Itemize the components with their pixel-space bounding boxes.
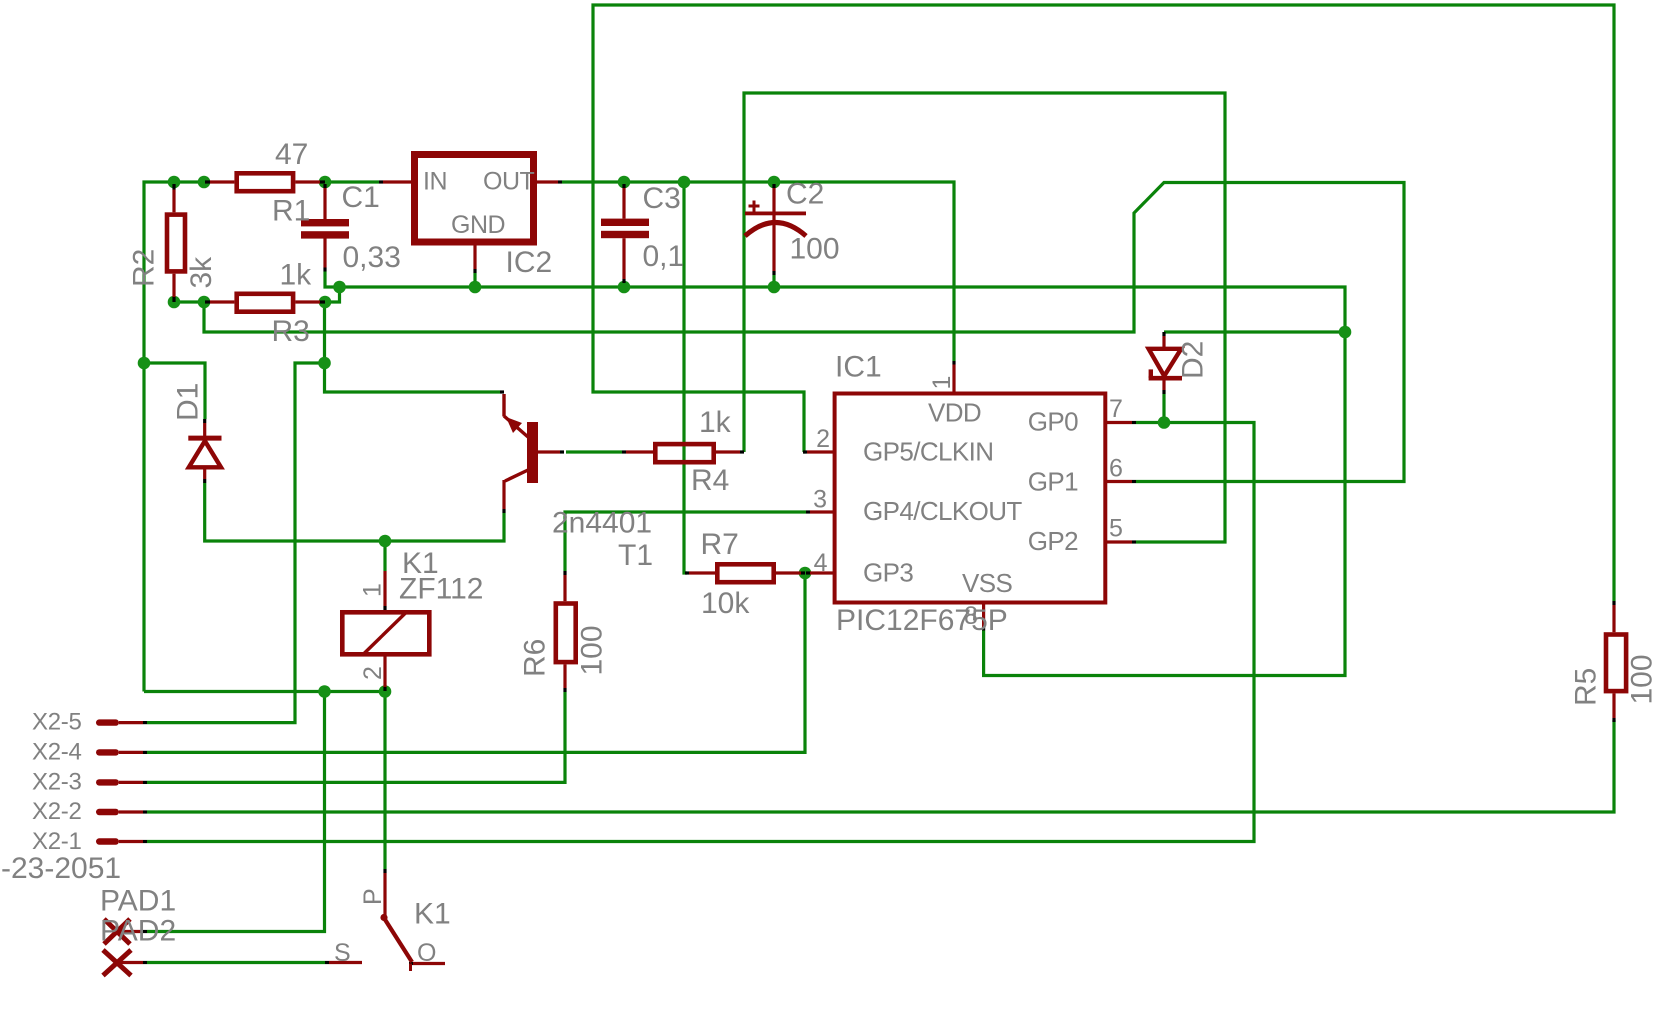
svg-text:100: 100	[576, 625, 609, 675]
wire R2 bottom to R3 left	[174, 300, 204, 303]
svg-text:0,33: 0,33	[343, 241, 401, 274]
connector X2-4 pin line	[119, 751, 143, 754]
resistor R5 pin top	[1612, 605, 1615, 632]
diode D2 cathode bar	[1149, 376, 1182, 381]
connector X2-2 pin stub	[96, 809, 119, 815]
svg-text:X2-1: X2-1	[32, 828, 82, 855]
node junction GND rail start	[333, 281, 346, 294]
svg-text:S: S	[334, 939, 350, 967]
connector X2-1 pin line	[119, 840, 143, 843]
connector X2-4 pin stub	[96, 749, 119, 755]
capacitor C2 curved plate	[745, 223, 806, 237]
svg-text:C1: C1	[342, 181, 380, 214]
wire R3 right jog to GND rail	[325, 288, 340, 303]
resistor R2 pin top	[172, 190, 175, 213]
node junction PAD1 riser	[318, 685, 331, 698]
svg-text:R5: R5	[1570, 668, 1603, 706]
diode D2 triangle	[1149, 349, 1182, 376]
capacitor C2 straight plate	[745, 212, 806, 216]
svg-text:4: 4	[814, 549, 828, 577]
wire PAD2 to switch S	[147, 961, 325, 964]
transistor T1 arrow head	[506, 417, 522, 433]
svg-text:X2-4: X2-4	[32, 738, 82, 765]
capacitor C1 plate bottom	[301, 231, 349, 238]
svg-text:-23-2051: -23-2051	[1, 852, 121, 885]
svg-text:0,1: 0,1	[643, 240, 685, 273]
svg-text:GP1: GP1	[1028, 467, 1078, 497]
diode D1 pin top	[203, 423, 206, 436]
node junction emitter rail	[318, 357, 331, 370]
PAD2 lead	[119, 961, 143, 964]
svg-text:1k: 1k	[699, 406, 732, 439]
svg-text:D1: D1	[172, 383, 205, 421]
wire K1 pin2 junction down to switch P	[383, 692, 386, 870]
resistor R4 pin right	[716, 450, 740, 453]
relay K1 coil pin 1	[383, 571, 386, 606]
wire D2 cathode to GP0	[1162, 394, 1165, 423]
IC1 pin 4 stub	[810, 571, 835, 574]
svg-text:X2-2: X2-2	[32, 798, 82, 825]
svg-text:PIC12F675P: PIC12F675P	[836, 604, 1008, 637]
IC2 regulator body	[415, 155, 534, 243]
svg-text:ZF112: ZF112	[399, 573, 483, 606]
resistor R3 pin left	[210, 300, 234, 303]
svg-text:C2: C2	[786, 178, 824, 211]
wire R6 bottom to X2-3	[147, 692, 565, 782]
resistor R6 pin bottom	[563, 664, 566, 688]
IC2 pin OUT	[537, 180, 558, 183]
svg-text:VDD: VDD	[928, 398, 981, 428]
svg-text:GND: GND	[451, 211, 505, 239]
node junction K1 pin2	[379, 685, 392, 698]
wire GP4 pin3 to R6 top	[565, 512, 806, 571]
diode D1 triangle	[189, 441, 221, 467]
svg-text:3: 3	[813, 486, 826, 514]
wire T1 base to R4 left	[566, 450, 622, 453]
capacitor C2 pin bottom	[772, 215, 775, 271]
IC1 pin 6 stub	[1105, 480, 1132, 483]
diode D2 pin bottom	[1162, 380, 1165, 390]
node junction D2 cathode / GP0	[1158, 416, 1171, 429]
wire GND rail to VSS	[340, 287, 1346, 676]
switch K1 pin O	[413, 962, 445, 965]
svg-text:O: O	[417, 939, 436, 967]
node junction riser at VOUT	[678, 176, 691, 189]
relay K1 coil body	[342, 612, 429, 654]
resistor R1 pin left	[210, 180, 234, 183]
diode D1 pin bottom	[203, 470, 206, 480]
resistor R3 body	[237, 294, 293, 312]
svg-text:8: 8	[964, 602, 977, 630]
IC2 pin GND	[473, 246, 476, 270]
svg-text:R3: R3	[272, 315, 310, 348]
resistor R4 body	[655, 444, 713, 462]
IC1 pin 8 VSS lead	[982, 603, 985, 628]
resistor R1 body	[237, 173, 293, 191]
resistor R4 pin left	[626, 450, 653, 453]
node junction R1 left	[198, 176, 211, 189]
connector X2-3 pin line	[119, 781, 143, 784]
capacitor C1 plate top	[301, 219, 349, 226]
wire node to X2-5	[147, 363, 325, 723]
svg-text:IN: IN	[423, 168, 447, 196]
wire D2 anode to GND drop	[1164, 330, 1345, 333]
svg-text:X2-5: X2-5	[32, 709, 82, 736]
svg-text:5: 5	[1109, 515, 1122, 543]
wire GP3/R7 junction down to X2-4	[147, 575, 805, 752]
transistor T1 emitter diagonal	[504, 394, 528, 437]
svg-text:R6: R6	[519, 639, 552, 677]
transistor T1 base pin	[538, 450, 560, 453]
svg-text:1k: 1k	[280, 258, 313, 291]
node junction K1 pin1 / collector rail	[379, 535, 392, 548]
svg-text:GP0: GP0	[1028, 407, 1078, 437]
svg-text:PAD2: PAD2	[100, 915, 176, 948]
capacitor C2 plus sign	[749, 201, 760, 212]
node junction R7 right / pin4	[799, 567, 812, 580]
diode D1 cathode bar	[188, 436, 221, 441]
svg-text:OUT: OUT	[483, 168, 535, 196]
wire R4 right up over top to GP2 pin5	[744, 93, 1225, 542]
svg-text:1: 1	[358, 584, 386, 597]
capacitor C3 plate bottom	[601, 231, 649, 238]
svg-text:2: 2	[359, 667, 387, 680]
capacitor C3 pin bottom	[622, 238, 625, 279]
resistor R5 body	[1606, 635, 1626, 692]
transistor T1 base bar	[527, 422, 538, 483]
switch K1 pin S	[329, 961, 362, 964]
IC1 pin 5 stub	[1105, 540, 1132, 543]
node junction R2 top	[168, 176, 181, 189]
svg-text:R7: R7	[701, 528, 739, 561]
node junction R3 right	[319, 296, 332, 309]
transistor T1 collector pin	[502, 480, 505, 509]
wire D1 top from node	[144, 363, 205, 419]
svg-text:P: P	[359, 889, 387, 905]
wire riser VOUT to R7 left	[684, 182, 687, 573]
wire D1 bottom along to T1 collector	[205, 483, 504, 541]
svg-text:7: 7	[1109, 395, 1122, 423]
relay K1 coil pin 2	[383, 657, 386, 688]
resistor R1 pin right	[295, 180, 320, 183]
PAD1 lead	[120, 930, 143, 933]
switch K1 pin P	[383, 873, 386, 915]
node junction C3 bottom	[618, 281, 631, 294]
svg-text:IC2: IC2	[506, 246, 553, 279]
PAD2 cross	[103, 950, 131, 976]
svg-text:R4: R4	[691, 464, 729, 497]
switch K1 blade	[384, 918, 412, 962]
IC2 pin IN	[383, 180, 411, 183]
svg-text:10k: 10k	[701, 587, 750, 620]
wire R3 right down to node	[323, 302, 326, 363]
svg-text:IC1: IC1	[835, 351, 882, 384]
svg-text:D2: D2	[1177, 341, 1210, 379]
resistor R5 pin bottom	[1612, 693, 1615, 718]
capacitor C1 pin top	[323, 188, 326, 219]
node junction C2 bottom	[768, 281, 781, 294]
IC1 pin 7 stub	[1105, 421, 1132, 424]
transistor T1 collector diagonal	[505, 470, 528, 481]
node junction IC2 GND	[469, 281, 482, 294]
svg-text:X2-3: X2-3	[32, 768, 82, 795]
wire C3 bottom stub	[622, 283, 625, 287]
diode D2 pin top	[1162, 336, 1165, 348]
svg-text:6: 6	[1109, 455, 1122, 483]
svg-text:GP5/CLKIN: GP5/CLKIN	[863, 437, 993, 467]
IC1 pin 1 VDD lead	[952, 365, 955, 395]
svg-text:2: 2	[816, 425, 829, 453]
resistor R6 body	[556, 604, 576, 663]
wire node down to PAD1	[147, 692, 325, 932]
switch K1 pivot	[380, 914, 387, 921]
node junction left rail at D1	[138, 357, 151, 370]
IC1 PIC body	[835, 394, 1106, 603]
connector X2-1 pin stub	[96, 838, 119, 844]
capacitor C2 pin top	[772, 188, 775, 212]
svg-text:VSS: VSS	[962, 568, 1012, 598]
PAD1 cross	[104, 919, 130, 944]
wire K1 coil pin1 from junction	[383, 541, 386, 571]
svg-text:1: 1	[928, 376, 956, 389]
connector X2-2 pin line	[119, 810, 143, 813]
wire K1 coil pin2 horizontal	[144, 690, 385, 693]
resistor R3 pin right	[295, 300, 320, 303]
capacitor C1 pin bottom	[323, 239, 326, 268]
resistor R2 pin bottom	[172, 274, 175, 297]
relay K1 coil diagonal	[364, 613, 406, 654]
svg-text:100: 100	[790, 233, 840, 266]
resistor R2 body	[167, 215, 185, 272]
node junction R3 left	[198, 296, 211, 309]
svg-text:C3: C3	[643, 182, 681, 215]
svg-text:3k: 3k	[185, 256, 218, 289]
connector X2-3 pin stub	[96, 779, 119, 785]
wire IC2 GND stub	[473, 273, 476, 287]
svg-text:GP3: GP3	[863, 558, 913, 588]
node junction D2 anode / GND drop	[1339, 326, 1352, 339]
svg-text:GP2: GP2	[1028, 526, 1078, 556]
svg-text:100: 100	[1626, 654, 1659, 704]
capacitor C3 plate top	[601, 219, 649, 226]
svg-text:R1: R1	[272, 195, 310, 228]
node junction C2 top	[768, 176, 781, 189]
node junction C3 top	[618, 176, 631, 189]
node junction R1 right / C1 top	[319, 176, 332, 189]
wire X2-2 to R5 bottom	[147, 720, 1614, 812]
wire GP0 net: pin7 via D2 down to X2-1	[147, 423, 1254, 842]
connector X2-5 pin line	[119, 721, 143, 724]
svg-text:47: 47	[275, 138, 308, 171]
svg-text:K1: K1	[414, 898, 451, 931]
svg-text:PAD1: PAD1	[100, 885, 176, 918]
switch K1 blade tick	[409, 964, 412, 972]
wire C1 bottom to GND rail	[325, 272, 340, 288]
svg-text:R2: R2	[128, 249, 161, 287]
transistor T1 emitter tip	[500, 390, 504, 393]
wire VIN: junction R1 right to IC2 IN	[325, 180, 379, 183]
wire R5 top over top edge down to GP5 pin2	[593, 5, 1614, 601]
IC1 pin 2 stub	[807, 450, 835, 453]
resistor R7 body	[717, 564, 773, 582]
wire C2 bottom stub	[772, 275, 775, 287]
wire node to T1 emitter	[325, 363, 501, 392]
svg-text:T1: T1	[618, 539, 653, 572]
wire VIN: top-left horizontal to R1	[144, 182, 206, 692]
connector X2-5 pin stub	[96, 719, 119, 725]
svg-text:2n4401: 2n4401	[552, 507, 652, 540]
resistor R7 pin left	[689, 571, 715, 574]
resistor R7 pin right	[776, 571, 801, 574]
IC1 pin 3 stub	[810, 510, 835, 513]
svg-text:GP4/CLKOUT: GP4/CLKOUT	[863, 496, 1022, 526]
node junction R2 bottom	[168, 296, 181, 309]
resistor R6 pin top	[563, 575, 566, 601]
wire GP1 net: R3 left junction loop to pin6	[204, 183, 1404, 482]
wire VOUT: IC2 OUT across C3,C2 down to IC1 VDD	[562, 182, 954, 361]
capacitor C3 pin top	[622, 188, 625, 219]
diode D2 zener hook	[1149, 369, 1153, 378]
